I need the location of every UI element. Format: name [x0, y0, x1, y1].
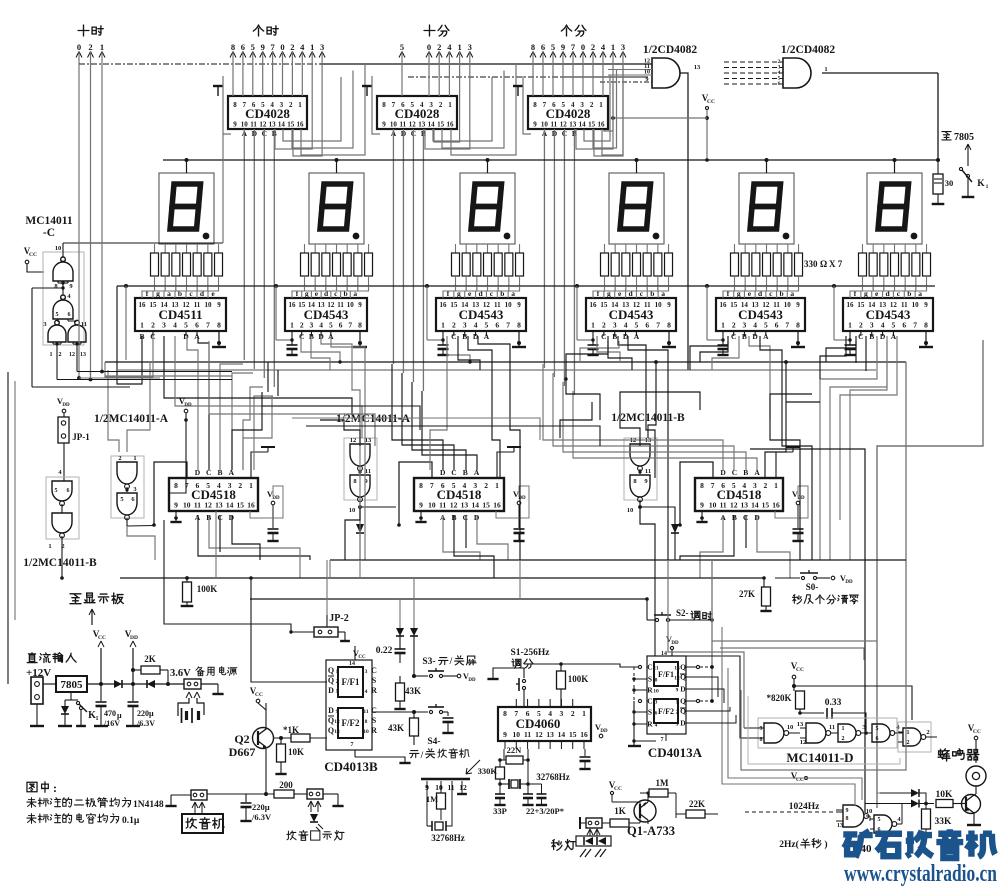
- switch S2 timeset: [645, 597, 649, 601]
- svg-text:7805: 7805: [61, 679, 84, 691]
- svg-text:5: 5: [56, 312, 59, 318]
- svg-text:Q: Q: [680, 697, 686, 706]
- svg-text:13: 13: [546, 730, 554, 739]
- svg-text:1: 1: [721, 321, 725, 330]
- svg-text:Q: Q: [328, 676, 334, 685]
- svg-text:D667: D667: [229, 745, 256, 759]
- svg-text:2: 2: [439, 101, 443, 109]
- decoder CD4028 #2: [377, 96, 457, 129]
- wire: [311, 336, 330, 370]
- nand D1: [764, 723, 784, 743]
- svg-text:8: 8: [174, 481, 178, 490]
- svg-text:6: 6: [541, 42, 545, 52]
- svg-text:0.1µ: 0.1µ: [122, 816, 140, 826]
- CD4060 top stubs: [515, 699, 517, 707]
- svg-text:2: 2: [151, 321, 155, 330]
- svg-text:CD4013A: CD4013A: [648, 745, 703, 760]
- svg-text:7: 7: [430, 481, 434, 490]
- counter bottom stub and ground: [175, 511, 177, 521]
- svg-text:15: 15: [482, 501, 490, 510]
- svg-text:CD4013B: CD4013B: [324, 759, 378, 774]
- svg-text:F/F1: F/F1: [342, 677, 360, 687]
- svg-text:8: 8: [533, 101, 537, 109]
- svg-text:1/2MC14011-A: 1/2MC14011-A: [336, 413, 411, 425]
- counter CD4518 #3: [695, 478, 783, 511]
- wires A D C B down into nest: [243, 129, 245, 360]
- radio box: [182, 814, 223, 833]
- wire: [786, 401, 820, 403]
- svg-text:CD4028: CD4028: [245, 106, 290, 121]
- svg-text:0: 0: [280, 42, 284, 52]
- svg-text:8: 8: [700, 481, 704, 490]
- svg-text:12: 12: [535, 730, 543, 739]
- svg-text:3: 3: [655, 700, 658, 706]
- 43K resistor 2: [410, 718, 419, 736]
- svg-text:10: 10: [655, 301, 663, 309]
- svg-text:7: 7: [506, 321, 510, 330]
- svg-text:2: 2: [61, 543, 64, 550]
- carry wires right: [433, 77, 492, 141]
- svg-text:2: 2: [907, 740, 910, 746]
- svg-text:5: 5: [400, 42, 404, 52]
- svg-text:D: D: [328, 686, 334, 695]
- svg-text:DD: DD: [62, 403, 70, 408]
- flip-flop CD4013A F/F2: [654, 699, 678, 723]
- svg-text:1: 1: [774, 481, 778, 490]
- wire second dashed rail: [408, 76, 560, 78]
- wire: [267, 362, 269, 392]
- wire: [553, 373, 734, 470]
- svg-text:1: 1: [848, 321, 852, 330]
- 100K pull resistor mid-left: [185, 576, 189, 580]
- svg-text:1: 1: [336, 669, 339, 675]
- svg-text:2: 2: [732, 321, 736, 330]
- display Vcc stub: [636, 160, 638, 173]
- wire: [826, 341, 856, 362]
- svg-text:470: 470: [104, 709, 116, 718]
- cap under CD4060 right: [584, 749, 586, 756]
- svg-text:g: g: [607, 289, 611, 298]
- wire: [219, 515, 221, 552]
- svg-text:a: a: [918, 289, 922, 298]
- label min-tens: [424, 25, 435, 36]
- svg-text:9: 9: [700, 501, 704, 510]
- svg-text:33K: 33K: [935, 817, 953, 827]
- svg-text:11: 11: [653, 666, 658, 672]
- svg-text:15: 15: [437, 121, 445, 129]
- switch K1: [76, 701, 79, 704]
- svg-text:10: 10: [866, 808, 873, 815]
- input pin T-stub: [517, 87, 519, 96]
- left bracket wire: [523, 76, 531, 134]
- segment wires into driver: [850, 286, 863, 298]
- svg-text:7: 7: [348, 321, 352, 330]
- svg-text:9: 9: [924, 301, 928, 309]
- svg-text:16: 16: [297, 121, 305, 129]
- svg-text:220µ: 220µ: [252, 802, 270, 812]
- svg-text:11: 11: [250, 121, 257, 129]
- svg-text:8: 8: [233, 101, 237, 109]
- svg-text:CC: CC: [796, 667, 804, 673]
- svg-text:15: 15: [237, 501, 245, 510]
- watermark CJK crystalradio: [843, 830, 872, 858]
- svg-text:/: /: [420, 751, 424, 761]
- svg-text:DD: DD: [184, 403, 192, 408]
- wire: [618, 336, 655, 478]
- svg-text:7: 7: [913, 321, 917, 330]
- segment wires into driver: [443, 286, 456, 298]
- 7-seg display DS1: [159, 173, 214, 244]
- svg-text:/6.3V: /6.3V: [251, 812, 272, 822]
- svg-text:10: 10: [627, 507, 634, 514]
- inset ground: [461, 781, 463, 793]
- svg-text:1: 1: [100, 42, 104, 52]
- svg-text:b: b: [500, 289, 504, 298]
- svg-text:12: 12: [334, 719, 340, 725]
- 7-seg display DS2: [309, 173, 364, 244]
- svg-text:JP-1: JP-1: [72, 432, 90, 442]
- svg-text:5: 5: [55, 488, 58, 494]
- svg-text::: :: [53, 781, 57, 795]
- cap 220u radio: [245, 794, 247, 802]
- svg-text:1024Hz: 1024Hz: [789, 802, 820, 812]
- ground at driver pin8: [359, 331, 361, 346]
- svg-text:2: 2: [764, 481, 768, 490]
- 7-seg display DS6: [867, 173, 922, 244]
- decoupling cap left of driver: [124, 284, 128, 288]
- svg-text:7: 7: [785, 321, 789, 330]
- svg-text:CD4511: CD4511: [158, 307, 202, 322]
- svg-text:S4-: S4-: [427, 737, 440, 747]
- wires decoder outputs down to box: [232, 52, 234, 96]
- svg-text:43K: 43K: [388, 723, 404, 733]
- wire: [430, 341, 447, 470]
- svg-text:8: 8: [217, 321, 221, 330]
- buzzer symbol: [966, 766, 986, 786]
- svg-text:1: 1: [611, 42, 615, 52]
- svg-text:1: 1: [140, 321, 144, 330]
- ground at driver pin8: [218, 331, 220, 346]
- svg-text:g: g: [305, 289, 309, 298]
- wire: [690, 341, 728, 370]
- long black wire right side: [750, 449, 865, 813]
- svg-text:S0-: S0-: [806, 582, 819, 592]
- to display board label: [70, 594, 81, 604]
- svg-text:13: 13: [569, 121, 577, 129]
- svg-text:22K: 22K: [689, 799, 705, 809]
- wire: [840, 336, 897, 520]
- svg-text:10: 10: [435, 783, 443, 792]
- svg-text:33P: 33P: [493, 806, 507, 816]
- wire: [90, 371, 92, 378]
- svg-text:13: 13: [694, 64, 701, 71]
- svg-text:-C: -C: [43, 227, 55, 239]
- svg-text:Q: Q: [680, 663, 686, 672]
- wire: [782, 420, 812, 560]
- Vcc rail to displays: [163, 159, 938, 161]
- ground at driver pin8: [668, 331, 670, 346]
- svg-text:9: 9: [676, 688, 679, 694]
- svg-text:15: 15: [857, 301, 865, 309]
- wire: [198, 515, 310, 560]
- resistor array under DS4: [604, 244, 606, 253]
- svg-text:7805: 7805: [954, 132, 974, 143]
- svg-text:330: 330: [804, 259, 818, 269]
- svg-text:DD: DD: [600, 729, 608, 734]
- svg-text:1: 1: [582, 709, 586, 718]
- svg-text:15: 15: [730, 301, 738, 309]
- svg-text:S1-256Hz: S1-256Hz: [510, 648, 550, 658]
- wire: [232, 373, 253, 470]
- svg-text:CC: CC: [29, 252, 37, 258]
- wire: [865, 336, 867, 371]
- label buzzer: [938, 749, 950, 761]
- wire: [412, 382, 466, 470]
- svg-text:3: 3: [365, 669, 368, 675]
- svg-text:S: S: [372, 676, 377, 685]
- wire: [105, 375, 232, 377]
- nand C1 inverter: [53, 262, 73, 281]
- wire: [447, 336, 470, 362]
- U bracket around counter left: [154, 462, 187, 525]
- notes legend: [27, 782, 37, 792]
- svg-text:12: 12: [459, 783, 467, 792]
- resistor array under DS1: [154, 244, 156, 253]
- svg-text:1: 1: [448, 101, 452, 109]
- svg-text:9: 9: [517, 301, 521, 309]
- switch K1 right: [959, 167, 962, 170]
- svg-text:1: 1: [310, 42, 314, 52]
- decoupling cap left of driver: [575, 284, 579, 288]
- svg-text:2K: 2K: [144, 654, 156, 664]
- svg-text:3.6V: 3.6V: [170, 668, 191, 679]
- svg-text:9: 9: [382, 121, 386, 129]
- crystal detail inset pins 9-12: [421, 778, 470, 781]
- svg-text:15: 15: [287, 121, 295, 129]
- wire: [820, 336, 846, 379]
- input pin T-stub: [217, 87, 219, 96]
- svg-text:): ): [824, 839, 827, 850]
- svg-text:6: 6: [655, 711, 658, 717]
- Q2 emitter down: [265, 749, 267, 794]
- radio connector: [191, 790, 207, 800]
- decoupling cap right of counter: [518, 505, 520, 528]
- display Vcc stub: [186, 160, 188, 173]
- svg-text:5: 5: [251, 42, 255, 52]
- svg-text:13: 13: [269, 121, 277, 129]
- wire: [465, 515, 467, 548]
- svg-text:9: 9: [336, 709, 339, 715]
- wire to JP-2 and CD4013B: [164, 520, 314, 632]
- svg-text:11: 11: [365, 468, 371, 475]
- output gate right: [898, 722, 931, 752]
- svg-text:7: 7: [661, 737, 664, 743]
- svg-text:Q1-A733: Q1-A733: [627, 824, 675, 838]
- svg-text:12: 12: [800, 739, 807, 746]
- driver IC CD4543 #3: [436, 298, 526, 331]
- wire: [392, 364, 443, 470]
- decoder CD4028 #3: [528, 96, 608, 129]
- svg-text:CD4518: CD4518: [717, 487, 762, 502]
- display Vcc stub: [894, 160, 896, 173]
- svg-text:10: 10: [428, 501, 436, 510]
- 7-seg display DS4: [609, 173, 664, 244]
- driver IC CD4543 #4: [586, 298, 676, 331]
- gate group MC14011-C: [43, 252, 84, 345]
- svg-text:30: 30: [945, 178, 954, 188]
- svg-text:8: 8: [419, 481, 423, 490]
- svg-text:100K: 100K: [568, 674, 589, 684]
- segment wires into driver: [593, 286, 605, 298]
- S4 switch: [372, 711, 428, 713]
- svg-text:a: a: [661, 289, 665, 298]
- svg-text:1: 1: [249, 481, 253, 490]
- svg-text:1: 1: [96, 716, 99, 722]
- decoupling cap left of driver: [832, 284, 836, 288]
- svg-text:8: 8: [531, 42, 535, 52]
- S1 switch: [523, 668, 525, 678]
- svg-text:4: 4: [655, 723, 658, 729]
- svg-text:1M: 1M: [656, 778, 670, 788]
- svg-text:1/2MC14011-A: 1/2MC14011-A: [94, 413, 169, 425]
- carry wires right: [283, 77, 341, 141]
- driver BCD wires into nest: [603, 331, 605, 336]
- wire: [477, 515, 508, 560]
- wires counters to lower rails: [215, 511, 217, 578]
- svg-text:1: 1: [133, 455, 136, 462]
- 100K resistor CD4060: [557, 671, 566, 689]
- wire: [478, 336, 520, 560]
- gate input ties down to rails: [52, 342, 54, 344]
- wire: [757, 515, 790, 578]
- wire: [563, 382, 746, 470]
- svg-text:C: C: [647, 697, 652, 706]
- wire: [105, 336, 153, 377]
- regulator 7805: [56, 676, 87, 692]
- resistor array under DS3: [455, 244, 457, 253]
- svg-text:2: 2: [484, 481, 488, 490]
- outer box CD4013A: [647, 656, 686, 734]
- svg-text:D: D: [328, 706, 334, 715]
- diodes above CD4013B: [399, 599, 401, 628]
- svg-text:8: 8: [655, 678, 658, 684]
- svg-text:10: 10: [709, 501, 717, 510]
- left bracket wire: [223, 76, 231, 134]
- forked wires to lower gates: [57, 319, 59, 321]
- svg-text:R: R: [371, 726, 377, 735]
- wire U-A output down through display row: [680, 73, 688, 370]
- svg-text:D: D: [680, 719, 686, 728]
- svg-text:8: 8: [382, 101, 386, 109]
- svg-text:R: R: [647, 720, 653, 729]
- svg-text:a: a: [790, 289, 794, 298]
- svg-text:10: 10: [205, 301, 213, 309]
- wires from hour-tens into gates: [78, 64, 80, 378]
- svg-text:7: 7: [206, 321, 210, 330]
- seconds lamp LEDs: [587, 829, 593, 835]
- svg-text:DD: DD: [272, 496, 280, 501]
- resistor array under DS2: [304, 244, 306, 253]
- svg-text:2: 2: [571, 709, 575, 718]
- svg-text:8: 8: [517, 321, 521, 330]
- wire: [850, 341, 887, 560]
- display Vcc stub: [487, 160, 489, 173]
- 2K resistor bypass: [131, 668, 135, 672]
- svg-text:16: 16: [598, 121, 606, 129]
- wire: [820, 336, 877, 560]
- svg-text:S2-: S2-: [676, 608, 689, 618]
- svg-text:F/F1: F/F1: [658, 670, 674, 679]
- svg-text:8: 8: [846, 816, 849, 822]
- svg-text:CD4518: CD4518: [191, 487, 236, 502]
- svg-text:1: 1: [441, 321, 445, 330]
- svg-text:S: S: [648, 675, 652, 684]
- svg-text:2: 2: [88, 42, 92, 52]
- svg-text:1: 1: [495, 481, 499, 490]
- svg-text:3: 3: [621, 42, 625, 52]
- wires decoder outputs down to box: [401, 52, 403, 96]
- switch S0: [775, 577, 800, 579]
- svg-text:R: R: [371, 686, 377, 695]
- svg-text:0: 0: [427, 42, 431, 52]
- svg-text:1: 1: [50, 352, 53, 358]
- svg-text:1K: 1K: [614, 806, 626, 816]
- lower nand E2: [874, 815, 892, 833]
- segment wires into driver: [292, 286, 305, 298]
- wire: [573, 391, 757, 470]
- nand D2: [806, 723, 826, 743]
- decoupling cap left of driver: [425, 284, 429, 288]
- svg-text:*820K: *820K: [766, 693, 791, 703]
- counter CD4518 #2: [414, 478, 504, 511]
- svg-text:15: 15: [150, 301, 158, 309]
- carry wires right: [584, 75, 610, 141]
- svg-text:C: C: [463, 513, 468, 522]
- label radio indicator: [287, 831, 296, 840]
- svg-text:/: /: [449, 657, 453, 667]
- svg-text:g: g: [737, 289, 741, 298]
- svg-text:8: 8: [924, 321, 928, 330]
- wire: [277, 370, 279, 396]
- counter top-right ground tick: [776, 452, 793, 478]
- wire: [700, 515, 723, 578]
- wire: [712, 336, 739, 370]
- svg-text:10: 10: [787, 724, 794, 731]
- svg-text:3: 3: [468, 42, 472, 52]
- counter top-right ground tick: [251, 452, 268, 478]
- svg-text:8: 8: [796, 321, 800, 330]
- svg-text:16: 16: [440, 301, 448, 309]
- svg-text:CD4543: CD4543: [304, 307, 349, 322]
- wire: [254, 396, 273, 470]
- svg-text:16: 16: [139, 301, 147, 309]
- wire: [175, 336, 362, 438]
- U bracket around counter left: [399, 462, 432, 525]
- svg-text:C: C: [371, 706, 377, 715]
- wire: [220, 364, 243, 470]
- left long verticals: [7, 372, 9, 684]
- LED connector: [307, 789, 323, 799]
- svg-text:220µ: 220µ: [137, 709, 154, 718]
- svg-text:27K: 27K: [739, 589, 755, 599]
- svg-text:10: 10: [241, 121, 249, 129]
- svg-text:15: 15: [600, 301, 608, 309]
- wire: [402, 373, 454, 470]
- svg-text:11: 11: [400, 121, 407, 129]
- svg-text:11: 11: [524, 730, 531, 739]
- svg-text:4: 4: [300, 42, 305, 52]
- svg-text:8: 8: [365, 719, 368, 725]
